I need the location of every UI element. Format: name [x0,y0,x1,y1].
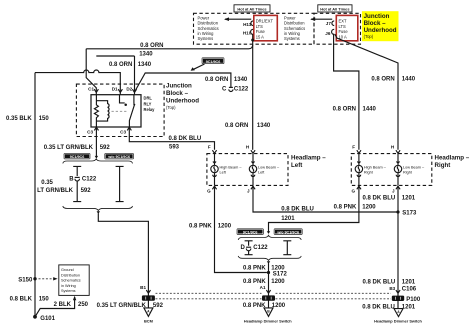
label 0.35 LT GRN/BLK 592 (at BCM) [97,303,164,309]
connector C122 pin C label [222,87,249,93]
pin J6 connector hook [332,29,335,34]
wire 0.35 LT GRN/BLK 592 from relay C3 down to option split [95,127,97,157]
svg-text:Headlamp –: Headlamp – [291,154,326,161]
label 0.8 ORN 1440 (right vertical wire) [371,76,415,82]
svg-text:1201: 1201 [402,196,416,202]
svg-text:592: 592 [81,188,92,194]
svg-text:Headlamp Dimmer Switch: Headlamp Dimmer Switch [374,318,422,323]
svg-text:Junction: Junction [364,13,390,20]
svg-text:BCM: BCM [144,319,153,324]
svg-text:9C1/9C6: 9C1/9C6 [243,231,258,235]
wire 0.35 LT GRN/BLK 592 merged down and over to BCM pin B1 [98,213,148,293]
label Hot at All Times (left) [234,5,270,12]
svg-text:592: 592 [100,145,111,151]
pin F arrow [212,150,216,153]
option path (w/o 9C1/9C6) plain wire [116,166,124,201]
svg-text:1340: 1340 [257,123,271,129]
svg-text:1201: 1201 [402,280,416,286]
splice S150 [18,277,36,283]
svg-text:C122: C122 [82,177,97,183]
wire 2 BLK 250 from G101 up to ground distribution note [36,296,77,316]
label 0.8 BLK 150 [10,296,50,302]
pin H arrow [396,150,400,153]
svg-text:1440: 1440 [402,76,416,82]
svg-text:in Wiring: in Wiring [61,284,76,288]
svg-text:0.8 ORN: 0.8 ORN [371,76,394,82]
wire 0.35 BLK 150 from top left corner down to S150 [34,73,36,279]
label 0.8 ORN 1340 (fuse to left headlamp wire) [225,123,271,129]
connector P100 pass-through (black) [392,293,421,308]
label 0.8 DK BLU 1201 (horizontal run) [281,206,314,222]
option tag 9C1/9C6 (left split) [64,153,91,159]
pin B1 arrow [146,290,150,293]
svg-text:1340: 1340 [234,77,248,83]
connector C122 pin D label [240,245,268,251]
option merge bottom brace (center) [238,256,301,261]
dashed arrow from S150 to ground distribution note [39,277,58,280]
svg-text:Left: Left [291,162,302,169]
svg-text:Junction: Junction [166,83,192,90]
wire 0.8 BLK 150 from S150 down to G101 [34,279,36,317]
relay mechanical link (dashed) [112,110,128,112]
fuse EXT LTS 10 A [336,15,358,40]
svg-text:0.8 DK BLU: 0.8 DK BLU [363,196,396,202]
svg-text:0.8 ORN: 0.8 ORN [333,107,356,113]
wire 0.8 DK BLU 1201 from S173 down to dimmer switch via C106 and P100 [397,212,399,293]
svg-text:1200: 1200 [218,224,232,230]
option split arrowhead (incoming wire) [95,156,98,159]
bulb high beam right [355,154,362,186]
power distribution reference dashed box (right, around EXT LTS fuse) [314,13,361,44]
svg-text:0.35 BLK: 0.35 BLK [6,116,32,122]
pin G arrow [212,186,216,189]
label 0.8 ORN 1340 (wire to C122) [205,77,248,83]
pin A1 arrow [266,290,270,293]
bulb low beam right [394,154,401,186]
svg-text:(Top): (Top) [364,34,374,39]
svg-text:C: C [222,87,227,93]
triangle connector A at dimmer switch right [394,309,403,317]
svg-text:LTS: LTS [339,24,346,29]
label 0.35 LT GRN/BLK 592 (above option split) [44,145,111,151]
connector pass-through at BCM wire (black) [142,293,155,307]
wire 0.8 PNK 1200 from headlamp right pin G down and over to center option split [269,186,359,232]
svg-text:Block –: Block – [166,90,189,97]
option path (9C1/9C6) with connector C122 pin D [245,241,253,255]
wire 0.8 DK BLU 1201 from headlamp right pin J down to S173 [397,186,399,212]
svg-text:Left: Left [220,171,227,175]
svg-text:J: J [392,189,395,194]
svg-text:0.8 BLK: 0.8 BLK [10,296,33,302]
svg-text:0.8 DK BLU: 0.8 DK BLU [169,136,202,142]
wire 0.8 ORN 1340 from H10 node to relay pin C1 [86,45,253,95]
label 0.8 DK BLU 1201 (above C106) [363,280,416,286]
svg-text:S172: S172 [273,272,288,278]
option merge bottom brace [63,206,133,211]
svg-text:0.35: 0.35 [41,180,53,186]
svg-text:1200: 1200 [272,303,286,309]
svg-text:Relay: Relay [144,107,156,112]
svg-text:F: F [208,145,211,150]
label 0.8 ORN 1340 (top wire) [139,43,163,57]
label High Beam - Left [220,166,243,175]
note Power Distribution Schematics in Wiring Systems (right) [284,15,305,41]
svg-text:B1: B1 [140,285,146,290]
svg-text:Systems: Systems [198,36,214,41]
wire 0.8 ORN 1340 from relay pin D2 to connector C122 pin C [135,73,234,92]
wire 0.8 ORN 1340 from fuse H10 down to Headlamp-Left pin H [251,34,254,150]
wire 0.8 PNK 1200 from headlamp left pin G down and over to S172 [215,186,267,272]
svg-text:0.8 ORN: 0.8 ORN [109,62,132,68]
svg-text:1201: 1201 [281,216,295,222]
svg-text:Fuse: Fuse [339,29,349,34]
svg-text:9C1/9C6: 9C1/9C6 [70,155,85,159]
label Headlamp - Right [435,154,470,169]
pin B3 arrow [396,290,400,293]
option split top brace [63,159,133,164]
svg-text:1200: 1200 [271,279,285,285]
note Power Distribution Schematics in Wiring Systems (left) [198,15,219,41]
label 0.8 PNK 1200 (right G wire) [334,204,377,210]
svg-text:0.8 PNK: 0.8 PNK [243,266,266,272]
note box Ground Distribution Schematics in Wiring Systems [59,265,89,296]
svg-text:Headlamp –: Headlamp – [435,154,470,161]
pin J arrow [251,186,255,189]
bulb low beam left [249,154,256,186]
harness boundary dashed line (upper) [156,292,392,294]
svg-text:RLY: RLY [144,101,152,106]
splice S172 [267,271,288,278]
option merge arrowhead (center) [267,261,270,264]
harness boundary dashed line (lower) [156,298,392,300]
label 0.8 DK BLU 593 [169,136,202,151]
label Headlamp - Left [291,154,326,169]
wire 0.8 ORN 1440 from fuse J6 diagonal down to Headlamp-Right pin H [335,34,398,150]
svg-text:J: J [247,189,250,194]
svg-text:0.8 ORN: 0.8 ORN [140,43,163,49]
option path (w/o 9C1/9C6) plain wire (center) [283,241,291,255]
svg-text:B3: B3 [389,286,395,291]
option path (9C1/9C6) with connector C122 pin B [73,166,81,201]
svg-text:w/o 9C1/9C6: w/o 9C1/9C6 [276,231,299,235]
label 0.35 BLK 150 [6,116,49,122]
svg-text:Ground: Ground [61,268,74,272]
pin C1 arrow [94,89,98,92]
svg-text:9C1/9C6: 9C1/9C6 [206,60,221,64]
svg-text:A1: A1 [260,285,266,290]
option split top brace (center) [238,235,301,240]
label Low Beam - Right [403,166,425,175]
svg-text:0.35 LT GRN/BLK: 0.35 LT GRN/BLK [44,145,94,151]
label 0.35 LT GRN/BLK 592 (on 9C1/9C6 path) [37,180,91,194]
svg-text:D1: D1 [112,87,118,92]
svg-text:D2: D2 [126,87,132,92]
svg-text:P100: P100 [406,297,421,303]
wire 0.8 DK BLU 593 from relay D3 to Headlamp-Left pin F [129,127,214,150]
option tag w/o 9C1/9C6 (center split) [274,229,303,235]
pin J7 connector hook [332,21,334,26]
label 0.8 ORN 1340 (second wire) [109,62,152,68]
svg-text:15 A: 15 A [256,35,264,40]
label 0.8 PNK 1200 (below pass-through) [243,303,286,309]
svg-text:Right: Right [403,171,413,175]
relay switch blade from D2 to pin D3 [129,95,135,127]
option tag 9C1/9C6 (center split) [237,229,264,235]
splice S173 [396,210,417,216]
svg-text:0.8 PNK: 0.8 PNK [189,224,212,230]
svg-text:High Beam –: High Beam – [364,166,387,170]
svg-text:Systems: Systems [284,36,300,41]
svg-text:Underhood: Underhood [166,98,199,105]
svg-text:High Beam –: High Beam – [220,166,243,170]
svg-text:G101: G101 [40,316,55,322]
svg-text:1440: 1440 [363,107,377,113]
svg-text:J7: J7 [326,21,332,26]
pin D1 arrow [118,89,122,92]
svg-text:150: 150 [39,116,50,122]
svg-text:B: B [69,177,74,183]
option tag 9C1/9C6 with arrow to wire [191,58,225,71]
svg-text:C3: C3 [87,129,93,134]
relay coil resistor (zigzag) branch [94,95,98,127]
svg-text:250: 250 [78,302,89,308]
connector pass-through at dimmer switch center wire (black) [262,293,275,307]
label Junction Block - Underhood (Top) [166,83,199,110]
svg-text:Low Beam –: Low Beam – [403,166,425,170]
wire 0.8 PNK 1200 merged down through S172 to dimmer switch pin A1 [268,263,270,293]
pin F arrow [357,150,361,153]
triangle connector B at dimmer switch [264,308,273,317]
label 0.8 DK BLU 1201 (right J wire) [363,196,416,202]
pin J arrow [396,186,400,189]
svg-text:w/o 9C1/9C6: w/o 9C1/9C6 [107,155,130,159]
option tag w/o 9C1/9C6 (left split) [105,153,134,159]
svg-text:0.8 ORN: 0.8 ORN [225,123,248,129]
fuse DRL/EXT LTS 15 A [254,15,277,40]
svg-text:1340: 1340 [138,62,152,68]
pin H arrow [251,150,255,153]
svg-text:Hot at All Times: Hot at All Times [237,6,266,11]
ground G101 [33,315,56,322]
svg-text:Distribution: Distribution [61,273,80,277]
svg-text:0.8 PNK: 0.8 PNK [334,204,357,210]
relay switch contact from D1 [120,95,127,106]
svg-text:1340: 1340 [139,51,153,57]
svg-text:G: G [352,189,356,194]
svg-text:D: D [240,245,245,251]
svg-text:Hot at All Times: Hot at All Times [320,6,349,11]
svg-text:C1: C1 [88,87,94,92]
svg-text:C106: C106 [402,286,417,292]
svg-text:1200: 1200 [362,204,376,210]
svg-text:F: F [352,145,355,150]
svg-text:LTS: LTS [256,24,263,29]
pin D2 arrow [132,89,136,92]
pin D3 arrow [127,127,131,130]
label 0.8 PNK 1200 (below S172) [243,279,285,285]
svg-text:C122: C122 [234,87,249,93]
svg-text:1200: 1200 [271,266,285,272]
svg-text:C3: C3 [120,129,126,134]
svg-text:0.8 DK BLU: 0.8 DK BLU [362,304,395,310]
headlamp left dashed box [207,154,288,186]
triangle connector A at BCM [144,308,153,317]
pin H11 connector hook [251,21,253,26]
connector C122 pin B label [69,177,97,183]
svg-text:C122: C122 [253,245,268,251]
option split arrowhead (center incoming wire) [267,231,270,234]
svg-text:G: G [207,189,211,194]
svg-text:S173: S173 [402,211,417,217]
headlamp right dashed box [351,154,432,186]
svg-text:0.8 DK BLU: 0.8 DK BLU [281,206,314,212]
label 0.8 ORN 1440 (left vertical wire) [333,107,377,113]
svg-text:Right: Right [364,171,374,175]
bulb high beam left [211,154,218,186]
svg-text:Systems: Systems [61,289,76,293]
label Low Beam - Left [258,166,280,175]
label 0.8 PNK 1200 (left G wire) [189,224,232,230]
svg-text:Headlamp Dimmer Switch: Headlamp Dimmer Switch [244,318,292,323]
svg-text:Schematics: Schematics [61,279,81,283]
connector C106 pin B3 label [389,286,416,292]
svg-text:1201: 1201 [402,304,416,310]
svg-text:J6: J6 [325,31,331,36]
svg-text:Low Beam –: Low Beam – [258,166,280,170]
option merge arrowhead [97,211,100,214]
svg-text:592: 592 [153,303,164,309]
svg-text:0.8 ORN: 0.8 ORN [205,77,228,83]
svg-text:Fuse: Fuse [256,29,266,34]
relay DRL RLY box [91,95,141,127]
junction block underhood dashed box (relay area) [76,84,164,136]
svg-text:593: 593 [169,145,180,151]
pin H10 connector hook [251,29,254,34]
svg-text:0.8 PNK: 0.8 PNK [243,303,266,309]
label 0.8 DK BLU 1201 (below P100) [362,304,416,310]
svg-text:2 BLK: 2 BLK [54,302,72,308]
wire 0.8 ORN 1440 from fuse J6 down to Headlamp-Right pin F [334,34,359,150]
svg-text:150: 150 [39,296,50,302]
svg-text:S150: S150 [18,277,33,283]
label DRL RLY Relay [144,96,156,113]
pin C3 arrow [94,127,98,130]
wire 0.8 DK BLU 1201 from headlamp left pin J over to splice S173 [253,186,398,212]
wire arrow from fuse pin H11 to power distribution note [224,17,251,21]
svg-text:0.8 DK BLU: 0.8 DK BLU [363,280,396,286]
relay coil inductor branch (parallel) [96,101,109,121]
svg-text:Block –: Block – [364,20,387,27]
pin G arrow [357,186,361,189]
svg-text:(Top): (Top) [166,105,176,110]
svg-text:Left: Left [258,171,265,175]
label High Beam - Right [364,166,387,175]
svg-text:0.35 LT GRN/BLK: 0.35 LT GRN/BLK [97,303,147,309]
label Junction Block - Underhood (Top) highlighted yellow [362,11,399,41]
wire 0.8 ORN 1340 from relay C1 over to relay pin D2 [96,56,134,95]
svg-text:DRL: DRL [144,96,153,101]
wire arrow from fuse pin J7 to power distribution note [310,17,332,21]
svg-text:Right: Right [435,162,451,169]
label 2 BLK 250 [54,302,89,308]
wire 0.8 ORN 1340 from left branch to relay pin D1 (with crossover hops) [35,70,120,95]
label Hot at All Times (right) [318,5,352,12]
power distribution reference dashed box (left, around DRL/EXT LTS fuse) [194,13,315,44]
label 0.8 PNK 1200 (above S172) [243,266,285,272]
svg-text:LT GRN/BLK: LT GRN/BLK [37,188,74,194]
